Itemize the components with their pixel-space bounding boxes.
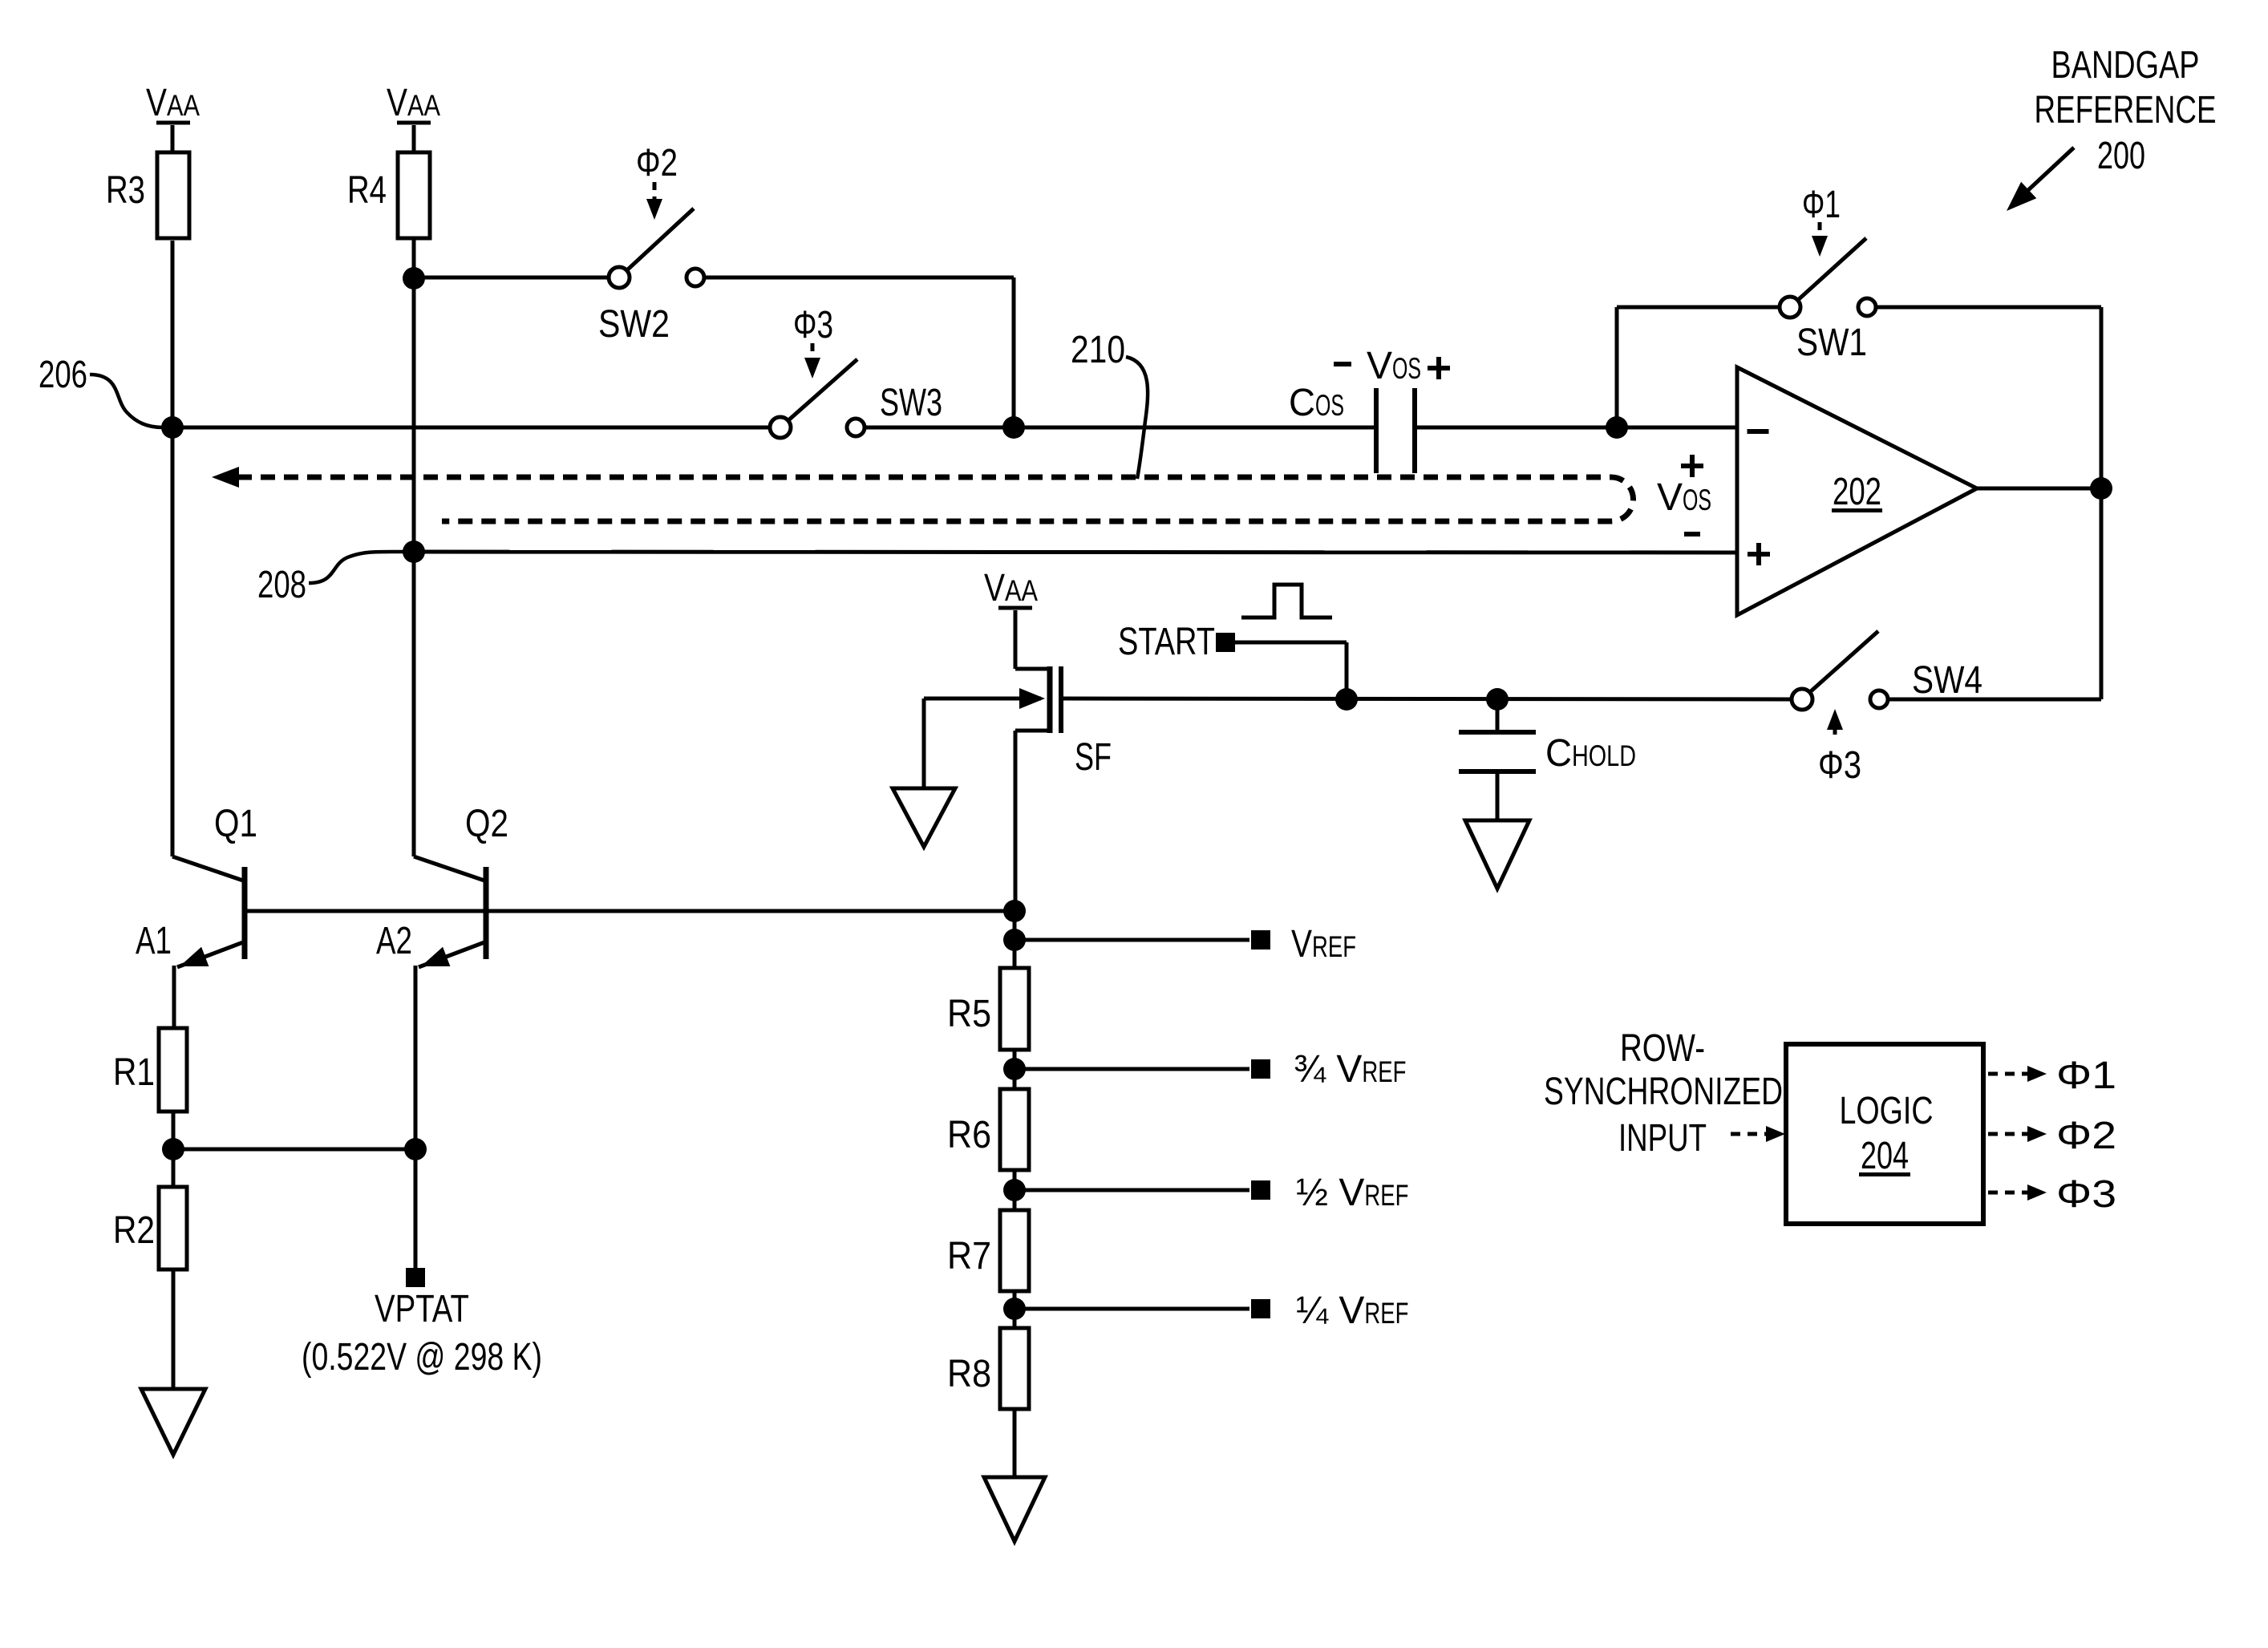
svg-text:(0.522V @ 298 K): (0.522V @ 298 K) <box>302 1336 542 1379</box>
svg-text:SW1: SW1 <box>1796 322 1867 364</box>
svg-text:R8: R8 <box>947 1353 991 1395</box>
svg-text:A2: A2 <box>376 920 412 962</box>
svg-text:210: 210 <box>1071 329 1125 371</box>
svg-text:START: START <box>1118 621 1215 663</box>
svg-text:SYNCHRONIZED: SYNCHRONIZED <box>1544 1071 1783 1113</box>
svg-text:REFERENCE: REFERENCE <box>2035 89 2217 132</box>
svg-text:Φ2: Φ2 <box>2056 1115 2116 1157</box>
svg-text:204: 204 <box>1861 1135 1909 1177</box>
svg-text:SF: SF <box>1075 736 1112 779</box>
svg-text:208: 208 <box>257 564 306 606</box>
svg-text:Φ1: Φ1 <box>2056 1055 2116 1097</box>
svg-text:R1: R1 <box>113 1051 155 1094</box>
svg-text:R6: R6 <box>947 1114 991 1156</box>
svg-text:R5: R5 <box>947 993 991 1035</box>
svg-text:Φ3: Φ3 <box>793 304 833 346</box>
svg-text:206: 206 <box>38 354 87 396</box>
svg-text:Q1: Q1 <box>214 803 257 845</box>
svg-text:R3: R3 <box>106 169 145 212</box>
svg-text:ROW-: ROW- <box>1620 1027 1705 1070</box>
svg-text:Φ3: Φ3 <box>2056 1173 2116 1216</box>
svg-text:SW2: SW2 <box>598 303 670 346</box>
svg-text:Φ3: Φ3 <box>1818 744 1861 787</box>
svg-text:200: 200 <box>2097 135 2145 177</box>
svg-text:INPUT: INPUT <box>1618 1117 1707 1160</box>
svg-text:R7: R7 <box>947 1235 991 1278</box>
svg-text:202: 202 <box>1833 471 1881 513</box>
svg-text:R4: R4 <box>347 169 387 212</box>
svg-text:SW3: SW3 <box>880 382 942 424</box>
svg-text:LOGIC: LOGIC <box>1840 1090 1934 1132</box>
svg-text:R2: R2 <box>113 1209 155 1252</box>
svg-text:SW4: SW4 <box>1912 659 1982 702</box>
svg-text:Q2: Q2 <box>465 803 508 845</box>
svg-text:A1: A1 <box>136 920 172 962</box>
svg-text:Φ2: Φ2 <box>636 142 678 184</box>
svg-text:Φ1: Φ1 <box>1802 184 1841 226</box>
svg-text:BANDGAP: BANDGAP <box>2051 44 2200 87</box>
svg-text:VPTAT: VPTAT <box>375 1288 469 1330</box>
